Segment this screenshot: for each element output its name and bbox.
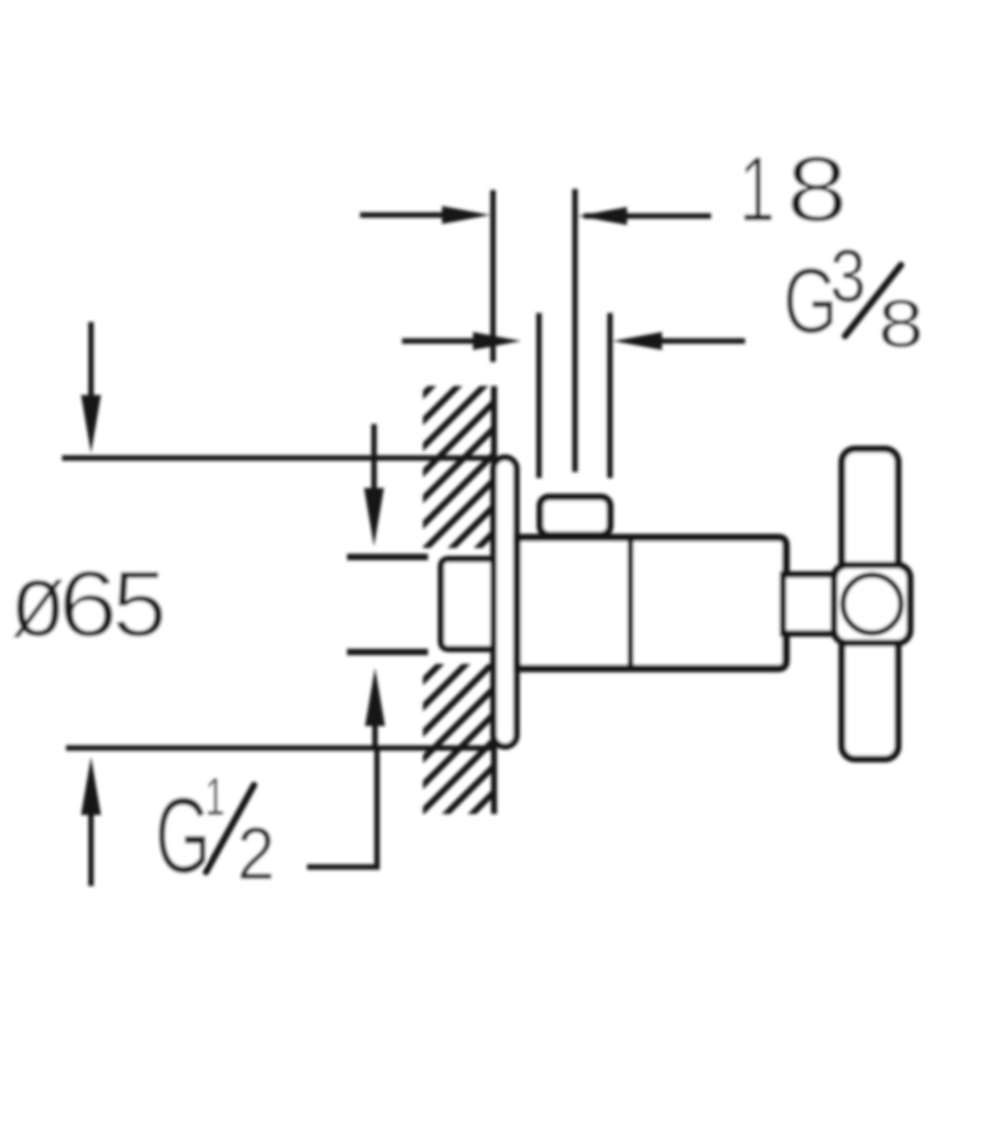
svg-text:8: 8 [878, 286, 924, 362]
inlet nut [540, 497, 610, 535]
leader G1/2 [307, 748, 377, 867]
centerline pipe (18) [572, 189, 578, 472]
arrow 18 left-pointing [578, 207, 627, 225]
dimension extension line wall (18) [490, 190, 496, 362]
tick bottom (G1/2) [347, 649, 428, 656]
svg-text:1: 1 [205, 767, 225, 827]
body inner line [628, 538, 634, 669]
handle hub [834, 565, 910, 643]
pipe wall left (G3/8) [536, 313, 542, 478]
dim line G38 left [402, 338, 480, 344]
handle bar [842, 449, 898, 759]
dim line 18 left [360, 212, 452, 218]
arrow G38 right-pointing [473, 332, 521, 350]
shank through wall [441, 559, 496, 649]
arrow up at left bottom [88, 810, 94, 886]
svg-text:2: 2 [237, 812, 275, 895]
valve body [517, 538, 786, 669]
arrow down at x374 [371, 424, 377, 500]
valve stem [783, 575, 838, 634]
dim line G38 right [656, 338, 745, 344]
escutcheon flange [494, 458, 517, 747]
arrow G38 left-pointing [613, 332, 662, 350]
wall face line [491, 386, 497, 814]
arrow down at left top [88, 322, 94, 408]
pipe wall right (G3/8) [607, 313, 613, 478]
dia65 bottom dim line [66, 745, 492, 751]
wall hatching upper band [0, 370, 942, 830]
svg-text:6: 6 [58, 551, 118, 656]
svg-text:8: 8 [786, 137, 848, 241]
arrow 18 right-pointing [442, 206, 490, 224]
svg-text:5: 5 [112, 551, 167, 656]
arrow up at x375 [372, 724, 378, 748]
svg-text:G: G [155, 775, 211, 897]
svg-text:3: 3 [830, 234, 866, 318]
svg-text:1: 1 [739, 137, 775, 241]
dim line 18 right [584, 213, 711, 219]
wall hatching lower band [0, 370, 942, 830]
tick top (G1/2) [347, 554, 428, 561]
hub circle [843, 575, 901, 633]
dia65 top dim line [62, 455, 492, 461]
